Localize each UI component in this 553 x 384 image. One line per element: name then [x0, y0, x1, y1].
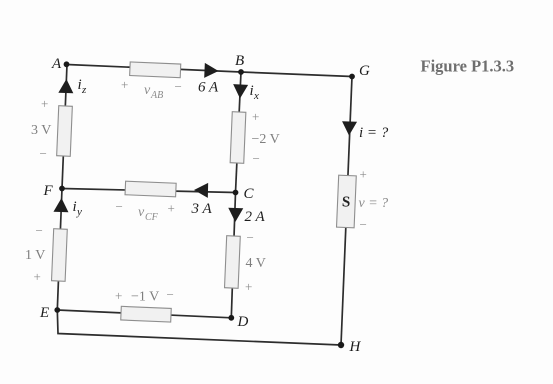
svg-text:+: +: [252, 109, 259, 124]
resistor vAB (A-B): [130, 62, 181, 78]
svg-text:3 V: 3 V: [31, 123, 51, 138]
svg-text:y: y: [76, 206, 82, 218]
wire G-H: [341, 77, 352, 346]
source S (G-H): [337, 175, 357, 228]
svg-text:E: E: [39, 305, 49, 321]
wire B-G: [241, 72, 352, 77]
node G: [349, 74, 355, 80]
wire F-E: [57, 189, 62, 311]
wire C-D: [231, 193, 235, 318]
wire A-F: [62, 65, 67, 189]
svg-text:2 A: 2 A: [245, 209, 266, 225]
node F: [59, 186, 65, 192]
arrow 2A: [228, 208, 243, 222]
svg-text:4 V: 4 V: [246, 256, 266, 271]
resistor 4V (C-D): [225, 236, 241, 289]
wire E-D: [57, 310, 231, 318]
wire F-C: [62, 189, 236, 193]
svg-text:−: −: [360, 217, 367, 232]
svg-text:AB: AB: [150, 90, 163, 101]
node B: [238, 69, 244, 75]
resistor 1V (F-E): [52, 229, 68, 282]
arrow i=?: [342, 121, 358, 136]
arrow iy: [53, 198, 69, 213]
svg-text:3 A: 3 A: [191, 201, 213, 217]
svg-text:−2 V: −2 V: [252, 132, 280, 147]
svg-text:+: +: [121, 77, 128, 92]
wire A-B: [67, 65, 241, 73]
svg-text:6 A: 6 A: [198, 80, 219, 96]
svg-text:−: −: [116, 199, 123, 214]
arrow 3A: [194, 183, 208, 198]
arrow iz: [58, 79, 74, 94]
svg-text:A: A: [51, 56, 62, 72]
svg-text:+: +: [115, 288, 122, 303]
resistor -2V (B-C): [230, 112, 246, 164]
svg-text:i = ?: i = ?: [359, 125, 389, 141]
arrow 6A: [204, 63, 219, 79]
svg-text:S: S: [342, 194, 351, 210]
svg-text:+: +: [41, 96, 48, 111]
svg-text:v: v: [138, 205, 145, 220]
node C: [233, 190, 239, 196]
svg-text:+: +: [168, 201, 175, 216]
svg-text:C: C: [244, 186, 255, 202]
svg-text:−: −: [253, 151, 260, 166]
svg-text:B: B: [235, 53, 244, 69]
svg-text:Figure P1.3.3: Figure P1.3.3: [421, 57, 515, 76]
arrow ix: [233, 84, 249, 99]
wire B-C: [236, 72, 242, 193]
svg-text:x: x: [253, 90, 259, 102]
node A: [64, 61, 70, 67]
svg-text:CF: CF: [145, 212, 159, 223]
resistor -1V (E-D): [121, 306, 172, 322]
resistor vCF (F-C): [125, 181, 176, 197]
svg-text:z: z: [81, 84, 87, 96]
svg-text:1 V: 1 V: [25, 248, 45, 263]
svg-text:v = ?: v = ?: [359, 196, 389, 211]
svg-text:D: D: [237, 314, 249, 330]
svg-text:−: −: [167, 287, 174, 302]
svg-text:−1 V: −1 V: [131, 290, 159, 305]
node E: [54, 307, 60, 313]
node H: [338, 342, 344, 348]
svg-text:+: +: [34, 269, 41, 284]
svg-text:+: +: [360, 167, 367, 182]
svg-text:+: +: [245, 279, 252, 294]
svg-text:−: −: [175, 79, 182, 94]
resistor 3V (A-F): [57, 106, 73, 157]
svg-text:F: F: [43, 183, 54, 199]
svg-text:G: G: [359, 63, 370, 79]
node D: [228, 315, 234, 321]
svg-text:−: −: [247, 230, 254, 245]
svg-text:−: −: [40, 146, 47, 161]
svg-text:−: −: [36, 223, 43, 238]
svg-text:v: v: [144, 83, 151, 98]
svg-text:H: H: [349, 339, 362, 355]
wire E-H bottom: [57, 310, 341, 345]
